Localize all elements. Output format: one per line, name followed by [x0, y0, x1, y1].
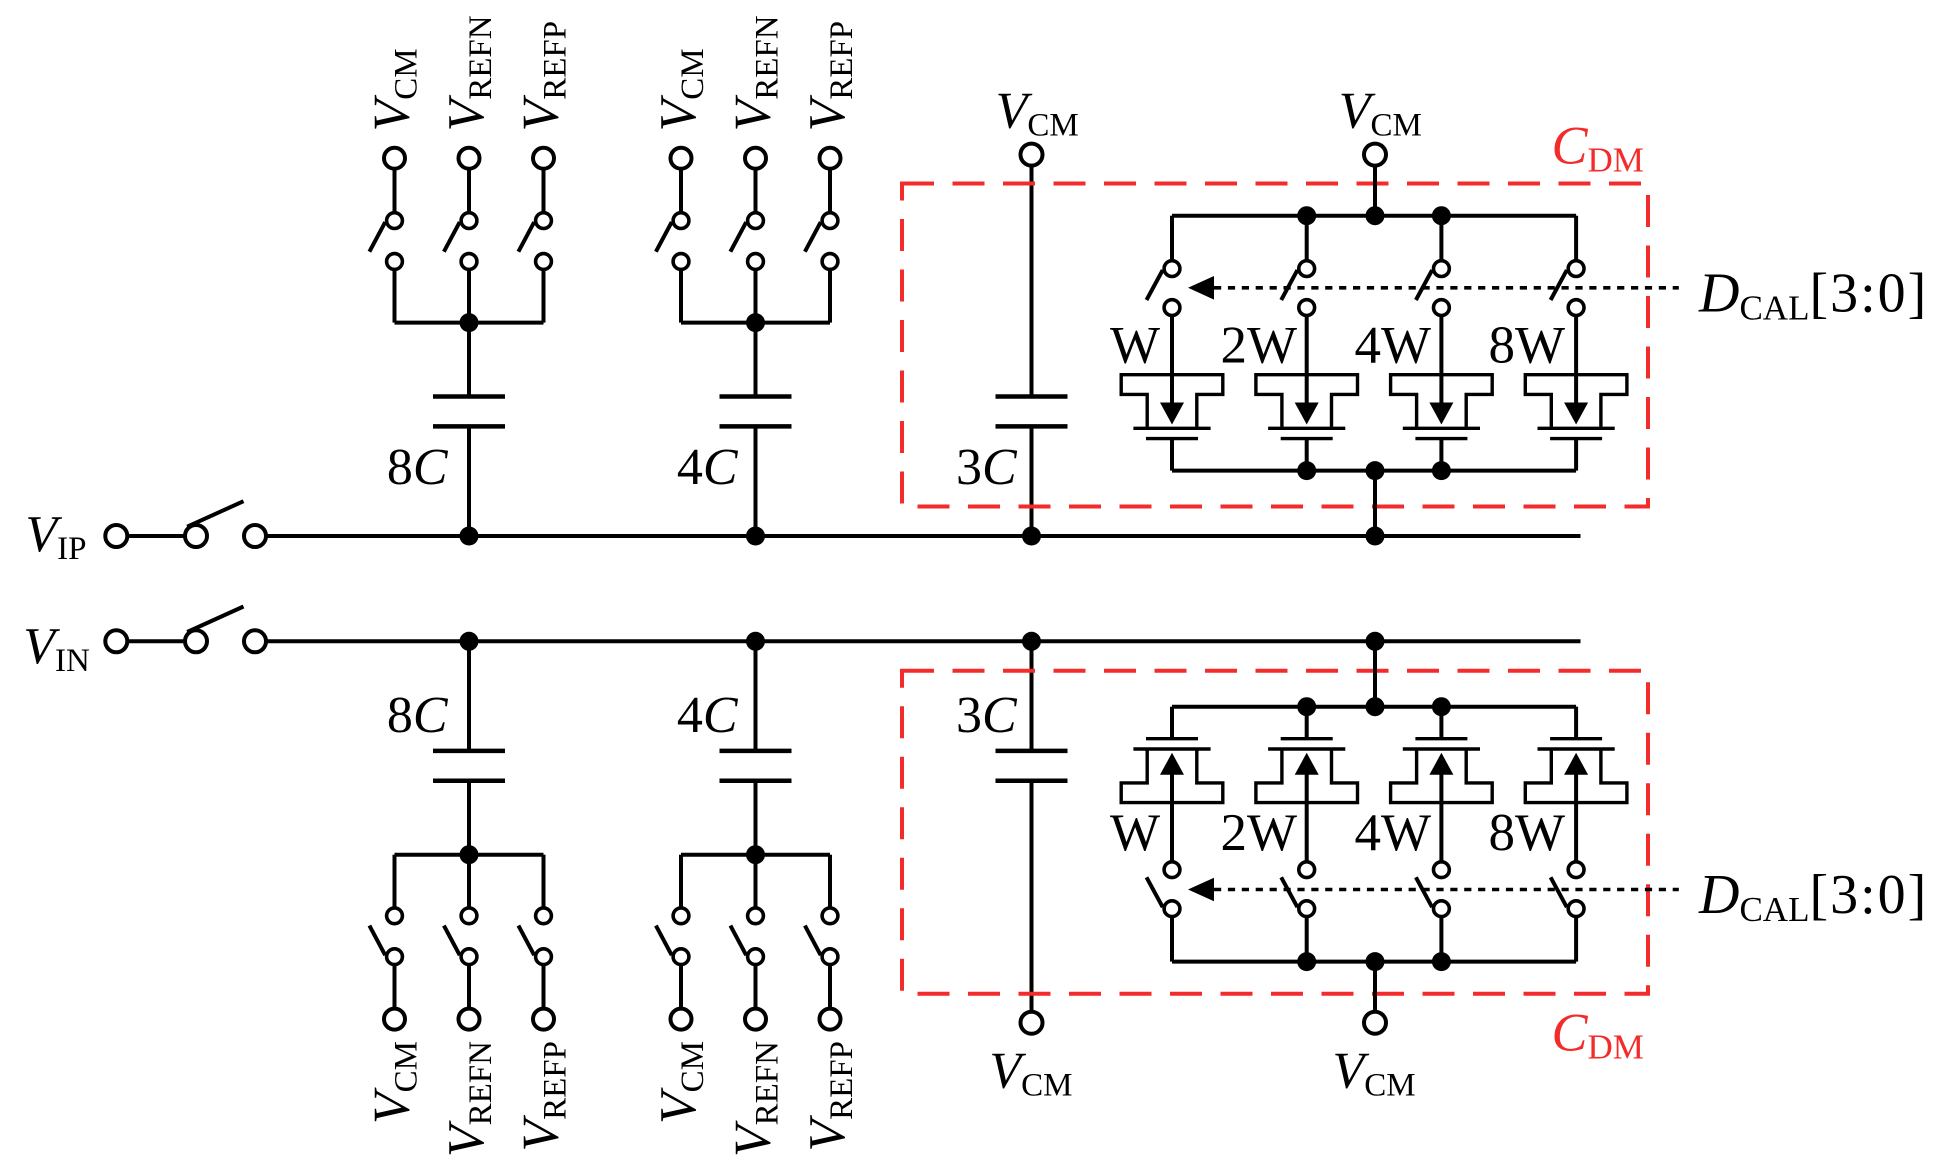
node junction C_DM on main bus: [1366, 632, 1385, 651]
switch VCM pivot (8C block): [387, 949, 403, 965]
wire VREFN to switch (4C block): [754, 158, 758, 220]
MOS gate arrow 2W: [1295, 403, 1319, 425]
switch VREFP lever (4C block): [805, 926, 821, 956]
node junction C_DM top bus: [1432, 206, 1451, 225]
switch VREFN lower terminal (8C block): [461, 254, 477, 270]
MOS capacitor 8W channel plate: [1550, 737, 1602, 740]
switch D_CAL 8W terminal: [1568, 300, 1584, 316]
wire VIP input segment: [129, 534, 185, 538]
switch D_CAL 2W pivot: [1299, 261, 1315, 277]
switch D_CAL 4W terminal: [1434, 862, 1450, 878]
MOS capacitor W channel plate: [1146, 737, 1198, 740]
wire capacitor 3C to main bus: [1030, 641, 1034, 751]
svg-text:3C: 3C: [956, 687, 1018, 744]
MOS capacitor 2W gate plate: [1268, 427, 1345, 430]
node junction 4C on main bus: [746, 632, 765, 651]
node switch bus junction (4C): [746, 313, 765, 332]
terminal VCM (C_DM): [1364, 1012, 1386, 1034]
node junction C_DM top bus: [1366, 952, 1385, 971]
node junction C_DM bottom bus: [1432, 697, 1451, 716]
wire VCM to C_DM bus: [1373, 962, 1377, 1023]
wire switch to bus (4C VREFN): [754, 262, 758, 323]
switch D_CAL W terminal: [1164, 300, 1180, 316]
wire switch to MOS gate 8W: [1574, 308, 1578, 407]
MOS capacitor W gate plate: [1133, 427, 1210, 430]
terminal VCM (3C): [1021, 1012, 1043, 1034]
switch VREFP lever (8C block): [518, 926, 534, 956]
arrowhead D_CAL: [1188, 878, 1214, 902]
switch VREFN lever (8C block): [444, 926, 460, 956]
switch VCM terminal (8C block): [384, 148, 405, 169]
switch D_CAL 2W lever: [1281, 877, 1297, 907]
wire switch bus (8C block): [395, 321, 544, 325]
node junction C_DM bottom bus: [1432, 461, 1451, 480]
switch VREFP lower terminal (8C block): [536, 254, 552, 270]
node switch bus junction (8C): [460, 845, 479, 864]
svg-text:DCAL[3:0]: DCAL[3:0]: [1698, 864, 1928, 929]
wire VREFN to switch (4C block): [754, 957, 758, 1019]
wire switch to MOS gate W: [1170, 770, 1174, 869]
switch D_CAL W terminal: [1164, 862, 1180, 878]
switch S_VIP pivot terminal: [185, 525, 207, 547]
switch VREFN lever (4C block): [730, 926, 746, 956]
switch VCM lever (4C block): [656, 222, 672, 252]
switch VREFN lower terminal (4C block): [748, 254, 764, 270]
wire C_DM to main bus: [1373, 641, 1377, 706]
wire switch to bus (8C VREFN): [467, 855, 471, 916]
switch VREFP lower terminal (4C block): [822, 254, 838, 270]
MOS gate arrow 4W: [1429, 753, 1453, 775]
switch VCM pivot (4C block): [673, 949, 689, 965]
switch VREFP pivot (8C block): [536, 213, 552, 229]
switch D_CAL 2W terminal: [1299, 300, 1315, 316]
node switch bus junction (8C): [460, 313, 479, 332]
wire capacitor 8C to main bus: [467, 426, 471, 536]
wire VCM to switch (8C block): [393, 158, 397, 220]
switch D_CAL W pivot: [1164, 901, 1180, 917]
wire switch to bus (8C VREFP): [542, 855, 546, 916]
wire MOS 8W to bottom bus: [1574, 707, 1578, 739]
wire capacitor 4C to main bus: [754, 641, 758, 751]
switch S_VIN input terminal: [105, 630, 127, 652]
switch VREFN lower terminal (8C block): [461, 908, 477, 924]
svg-text:8C: 8C: [387, 687, 449, 744]
switch D_CAL W lever: [1147, 270, 1163, 300]
MOS capacitor 8W gate plate: [1538, 747, 1615, 750]
wire switch to MOS gate 4W: [1439, 770, 1443, 869]
switch D_CAL 8W terminal: [1568, 862, 1584, 878]
svg-text:DCAL[3:0]: DCAL[3:0]: [1698, 263, 1928, 328]
node junction 8C on main bus: [460, 527, 479, 546]
switch D_CAL 4W pivot: [1434, 901, 1450, 917]
wire VCM to switch (4C block): [679, 957, 683, 1019]
svg-text:8W: 8W: [1488, 804, 1565, 862]
node junction C_DM bottom bus: [1366, 697, 1385, 716]
switch S_VIN output terminal: [244, 630, 266, 652]
MOS gate arrow 4W: [1429, 403, 1453, 425]
node junction C_DM bottom bus: [1297, 461, 1316, 480]
node junction C_DM on main bus: [1366, 527, 1385, 546]
switch VCM lower terminal (8C block): [387, 254, 403, 270]
switch VCM lever (4C block): [656, 926, 672, 956]
wire switch to bus (4C VREFN): [754, 855, 758, 916]
node junction C_DM top bus: [1432, 952, 1451, 971]
wire bus to switch 4W: [1439, 909, 1443, 962]
switch VCM lower terminal (8C block): [387, 908, 403, 924]
wire VIN main bus: [266, 639, 1581, 643]
wire switch to bus (8C VCM): [393, 855, 397, 916]
capacitor 3C: [996, 751, 1068, 781]
wire switch bus (8C block): [395, 853, 544, 857]
switch VREFN terminal (8C block): [459, 1009, 480, 1030]
switch D_CAL W pivot: [1164, 261, 1180, 277]
wire MOS 4W to bottom bus: [1439, 707, 1443, 739]
wire C_DM bottom bus: [1172, 469, 1576, 473]
wire capacitor 4C to main bus: [754, 426, 758, 536]
wire MOS 8W to bottom bus: [1574, 439, 1578, 471]
wire switch to bus (4C VCM): [679, 262, 683, 323]
switch S_VIP lever: [187, 501, 243, 527]
node junction 3C on main bus: [1022, 632, 1041, 651]
wire MOS 4W to bottom bus: [1439, 439, 1443, 471]
MOS capacitor 4W well: [1391, 375, 1493, 427]
switch D_CAL 8W lever: [1551, 270, 1567, 300]
MOS capacitor 4W well: [1391, 750, 1493, 802]
switch S_VIP input terminal: [105, 525, 127, 547]
switch VREFN pivot (8C block): [461, 213, 477, 229]
wire VREFN to switch (8C block): [467, 957, 471, 1019]
wire bus to switch W: [1170, 216, 1174, 269]
wire switch bus (4C block): [681, 853, 830, 857]
wire bus to capacitor 8C: [467, 781, 471, 855]
MOS gate arrow W: [1160, 403, 1184, 425]
switch D_CAL 4W terminal: [1434, 300, 1450, 316]
switch VREFP pivot (4C block): [822, 213, 838, 229]
wire switch to MOS gate 4W: [1439, 308, 1443, 407]
wire C_DM bottom bus: [1172, 705, 1576, 709]
svg-text:8C: 8C: [387, 439, 449, 496]
switch S_VIN lever: [187, 607, 243, 633]
switch S_VIN pivot terminal: [185, 630, 207, 652]
switch VREFP lever (4C block): [805, 222, 821, 252]
MOS capacitor 8W well: [1525, 375, 1627, 427]
switch VREFP lower terminal (8C block): [536, 908, 552, 924]
MOS capacitor W channel plate: [1146, 437, 1198, 440]
wire switch to MOS gate 8W: [1574, 770, 1578, 869]
svg-text:3C: 3C: [956, 439, 1018, 496]
wire switch to bus (8C VREFP): [542, 262, 546, 323]
switch VREFN pivot (4C block): [748, 213, 764, 229]
MOS gate arrow W: [1160, 753, 1184, 775]
wire C_DM top bus: [1172, 214, 1576, 218]
wire bus to capacitor 4C: [754, 323, 758, 397]
wire VIP main bus: [266, 534, 1581, 538]
switch VREFP terminal (4C block): [820, 148, 841, 169]
MOS capacitor 2W channel plate: [1281, 437, 1333, 440]
wire MOS 2W to bottom bus: [1305, 439, 1309, 471]
wire bus to switch 8W: [1574, 216, 1578, 269]
wire MOS 2W to bottom bus: [1305, 707, 1309, 739]
switch VCM terminal (4C block): [671, 1009, 692, 1030]
MOS capacitor 4W gate plate: [1403, 747, 1480, 750]
wire MOS W to bottom bus: [1170, 439, 1174, 471]
svg-text:2W: 2W: [1220, 317, 1297, 375]
switch VREFP lower terminal (4C block): [822, 908, 838, 924]
switch VCM terminal (4C block): [671, 148, 692, 169]
wire bus to switch 8W: [1574, 909, 1578, 962]
switch VREFN terminal (8C block): [459, 148, 480, 169]
switch VREFP pivot (8C block): [536, 949, 552, 965]
dashed control line D_CAL: [1214, 286, 1679, 290]
MOS capacitor W well: [1121, 750, 1223, 802]
dashed box C_DM: [902, 184, 1648, 507]
MOS gate arrow 8W: [1564, 403, 1588, 425]
wire switch to bus (8C VCM): [393, 262, 397, 323]
arrowhead D_CAL: [1188, 276, 1214, 300]
MOS capacitor 8W gate plate: [1538, 427, 1615, 430]
wire switch to MOS gate 2W: [1305, 308, 1309, 407]
switch VREFN lever (8C block): [444, 222, 460, 252]
wire bus to switch 2W: [1305, 216, 1309, 269]
MOS capacitor 4W gate plate: [1403, 427, 1480, 430]
wire switch to bus (4C VCM): [679, 855, 683, 916]
wire VCM to switch (4C block): [679, 158, 683, 220]
node junction C_DM bottom bus: [1297, 697, 1316, 716]
switch VCM lever (8C block): [369, 222, 385, 252]
node switch bus junction (4C): [746, 845, 765, 864]
switch VCM pivot (8C block): [387, 213, 403, 229]
switch VCM lower terminal (4C block): [673, 908, 689, 924]
wire capacitor 8C to main bus: [467, 641, 471, 751]
wire bus to switch 2W: [1305, 909, 1309, 962]
wire bus to capacitor 4C: [754, 781, 758, 855]
switch VREFN terminal (4C block): [745, 148, 766, 169]
terminal VCM (C_DM): [1364, 144, 1386, 166]
node junction 3C on main bus: [1022, 527, 1041, 546]
wire bus to switch 4W: [1439, 216, 1443, 269]
switch D_CAL 4W lever: [1416, 270, 1432, 300]
wire bus to switch W: [1170, 909, 1174, 962]
MOS capacitor 4W channel plate: [1415, 437, 1467, 440]
capacitor 4C: [720, 751, 792, 781]
wire VREFP to switch (4C block): [828, 957, 832, 1019]
switch VREFP pivot (4C block): [822, 949, 838, 965]
capacitor 4C: [720, 397, 792, 427]
svg-text:4C: 4C: [677, 439, 739, 496]
wire bus to capacitor 8C: [467, 323, 471, 397]
wire VIN input segment: [129, 639, 185, 643]
wire VCM to capacitor 3C: [1030, 155, 1034, 397]
switch VREFN pivot (4C block): [748, 949, 764, 965]
switch VREFP lever (8C block): [518, 222, 534, 252]
switch D_CAL 4W lever: [1416, 877, 1432, 907]
wire switch to bus (4C VREFP): [828, 262, 832, 323]
MOS capacitor W gate plate: [1133, 747, 1210, 750]
wire VCM to capacitor 3C: [1030, 781, 1034, 1023]
switch D_CAL 8W pivot: [1568, 901, 1584, 917]
switch D_CAL 2W lever: [1281, 270, 1297, 300]
switch D_CAL 2W pivot: [1299, 901, 1315, 917]
node junction C_DM top bus: [1366, 206, 1385, 225]
switch VREFP terminal (8C block): [533, 1009, 554, 1030]
switch D_CAL 8W pivot: [1568, 261, 1584, 277]
wire switch bus (4C block): [681, 321, 830, 325]
dashed control line D_CAL: [1214, 888, 1679, 892]
svg-text:4W: 4W: [1354, 317, 1431, 375]
switch D_CAL W lever: [1147, 877, 1163, 907]
switch D_CAL 8W lever: [1551, 877, 1567, 907]
wire C_DM top bus: [1172, 960, 1576, 964]
MOS capacitor 2W channel plate: [1281, 737, 1333, 740]
wire C_DM to main bus: [1373, 471, 1377, 536]
svg-text:8W: 8W: [1488, 317, 1565, 375]
switch D_CAL 2W terminal: [1299, 862, 1315, 878]
wire switch to bus (4C VREFP): [828, 855, 832, 916]
wire VCM to switch (8C block): [393, 957, 397, 1019]
capacitor 8C: [433, 751, 505, 781]
MOS capacitor 2W well: [1256, 750, 1358, 802]
MOS capacitor 4W channel plate: [1415, 737, 1467, 740]
switch VREFP terminal (8C block): [533, 148, 554, 169]
dashed box C_DM: [902, 671, 1648, 994]
switch VCM terminal (8C block): [384, 1009, 405, 1030]
switch VREFN terminal (4C block): [745, 1009, 766, 1030]
capacitor 8C: [433, 397, 505, 427]
switch VREFN pivot (8C block): [461, 949, 477, 965]
node junction 4C on main bus: [746, 527, 765, 546]
wire switch to bus (8C VREFN): [467, 262, 471, 323]
wire VREFP to switch (4C block): [828, 158, 832, 220]
svg-text:W: W: [1110, 317, 1160, 375]
switch VCM lower terminal (4C block): [673, 254, 689, 270]
capacitor 3C: [996, 397, 1068, 427]
svg-text:4C: 4C: [677, 687, 739, 744]
MOS capacitor 8W well: [1525, 750, 1627, 802]
MOS capacitor W well: [1121, 375, 1223, 427]
wire MOS W to bottom bus: [1170, 707, 1174, 739]
node junction C_DM bottom bus: [1366, 461, 1385, 480]
node junction 8C on main bus: [460, 632, 479, 651]
switch S_VIP output terminal: [244, 525, 266, 547]
node junction C_DM top bus: [1297, 206, 1316, 225]
svg-text:W: W: [1110, 804, 1160, 862]
MOS capacitor 2W well: [1256, 375, 1358, 427]
switch VCM pivot (4C block): [673, 213, 689, 229]
wire VREFN to switch (8C block): [467, 158, 471, 220]
switch D_CAL 4W pivot: [1434, 261, 1450, 277]
wire switch to MOS gate 2W: [1305, 770, 1309, 869]
svg-text:4W: 4W: [1354, 804, 1431, 862]
terminal VCM (3C): [1021, 144, 1043, 166]
wire switch to MOS gate W: [1170, 308, 1174, 407]
switch VREFP terminal (4C block): [820, 1009, 841, 1030]
switch VREFN lever (4C block): [730, 222, 746, 252]
wire VREFP to switch (8C block): [542, 158, 546, 220]
switch VCM lever (8C block): [369, 926, 385, 956]
node junction C_DM top bus: [1297, 952, 1316, 971]
MOS capacitor 8W channel plate: [1550, 437, 1602, 440]
wire VCM to C_DM bus: [1373, 155, 1377, 216]
wire capacitor 3C to main bus: [1030, 426, 1034, 536]
MOS gate arrow 2W: [1295, 753, 1319, 775]
wire VREFP to switch (8C block): [542, 957, 546, 1019]
svg-text:2W: 2W: [1220, 804, 1297, 862]
MOS gate arrow 8W: [1564, 753, 1588, 775]
switch VREFN lower terminal (4C block): [748, 908, 764, 924]
MOS capacitor 2W gate plate: [1268, 747, 1345, 750]
